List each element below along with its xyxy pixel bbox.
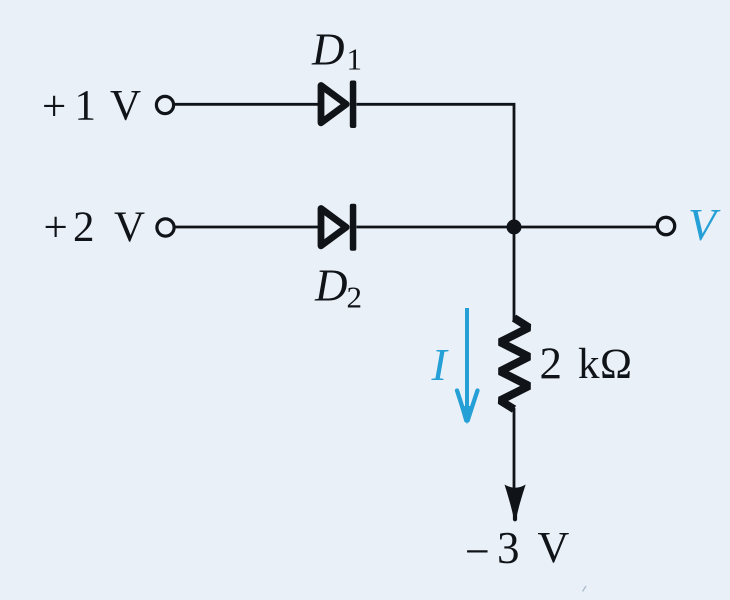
terminal V output — [657, 217, 674, 234]
wire D2 to junction to output — [357, 226, 658, 229]
svg-text:I: I — [431, 339, 450, 390]
svg-text:2: 2 — [347, 280, 363, 315]
svg-text:1: 1 — [75, 83, 97, 130]
svg-text:+: + — [42, 84, 66, 131]
resistor 2 kOhm — [500, 318, 529, 409]
junction node — [507, 220, 522, 235]
wire resistor down to -3V arrow — [513, 408, 516, 488]
wire +1V input to D1 — [175, 103, 319, 106]
svg-text:V: V — [110, 83, 141, 130]
value label 2 kOhm — [540, 339, 633, 389]
node -3 V label — [465, 523, 570, 576]
node +2 V label — [44, 204, 146, 252]
wire D1 to corner and down to junction — [357, 104, 515, 227]
label D2 — [314, 261, 362, 315]
diode D2 — [321, 204, 356, 251]
supply arrowhead -3 V — [505, 485, 526, 521]
svg-text:V: V — [538, 523, 570, 572]
svg-text:kΩ: kΩ — [578, 341, 633, 388]
svg-text:V: V — [688, 199, 721, 250]
terminal +2 V — [157, 219, 174, 236]
svg-text:−: − — [465, 527, 490, 576]
svg-text:D: D — [311, 25, 345, 75]
svg-text:V: V — [114, 204, 145, 251]
svg-text:D: D — [314, 261, 348, 311]
svg-text:2: 2 — [540, 339, 563, 389]
scan speck artifact — [583, 586, 587, 592]
wire junction down to resistor — [513, 227, 516, 320]
terminal +1 V — [156, 96, 173, 113]
svg-text:2: 2 — [73, 204, 95, 251]
diode D1 — [321, 81, 356, 129]
node +1 V label — [42, 83, 141, 131]
svg-text:3: 3 — [497, 523, 520, 573]
label D1 — [311, 25, 362, 77]
current arrow I — [457, 308, 478, 425]
svg-text:1: 1 — [347, 42, 363, 77]
svg-text:+: + — [44, 205, 68, 252]
wire +2V input to D2 — [176, 226, 320, 229]
